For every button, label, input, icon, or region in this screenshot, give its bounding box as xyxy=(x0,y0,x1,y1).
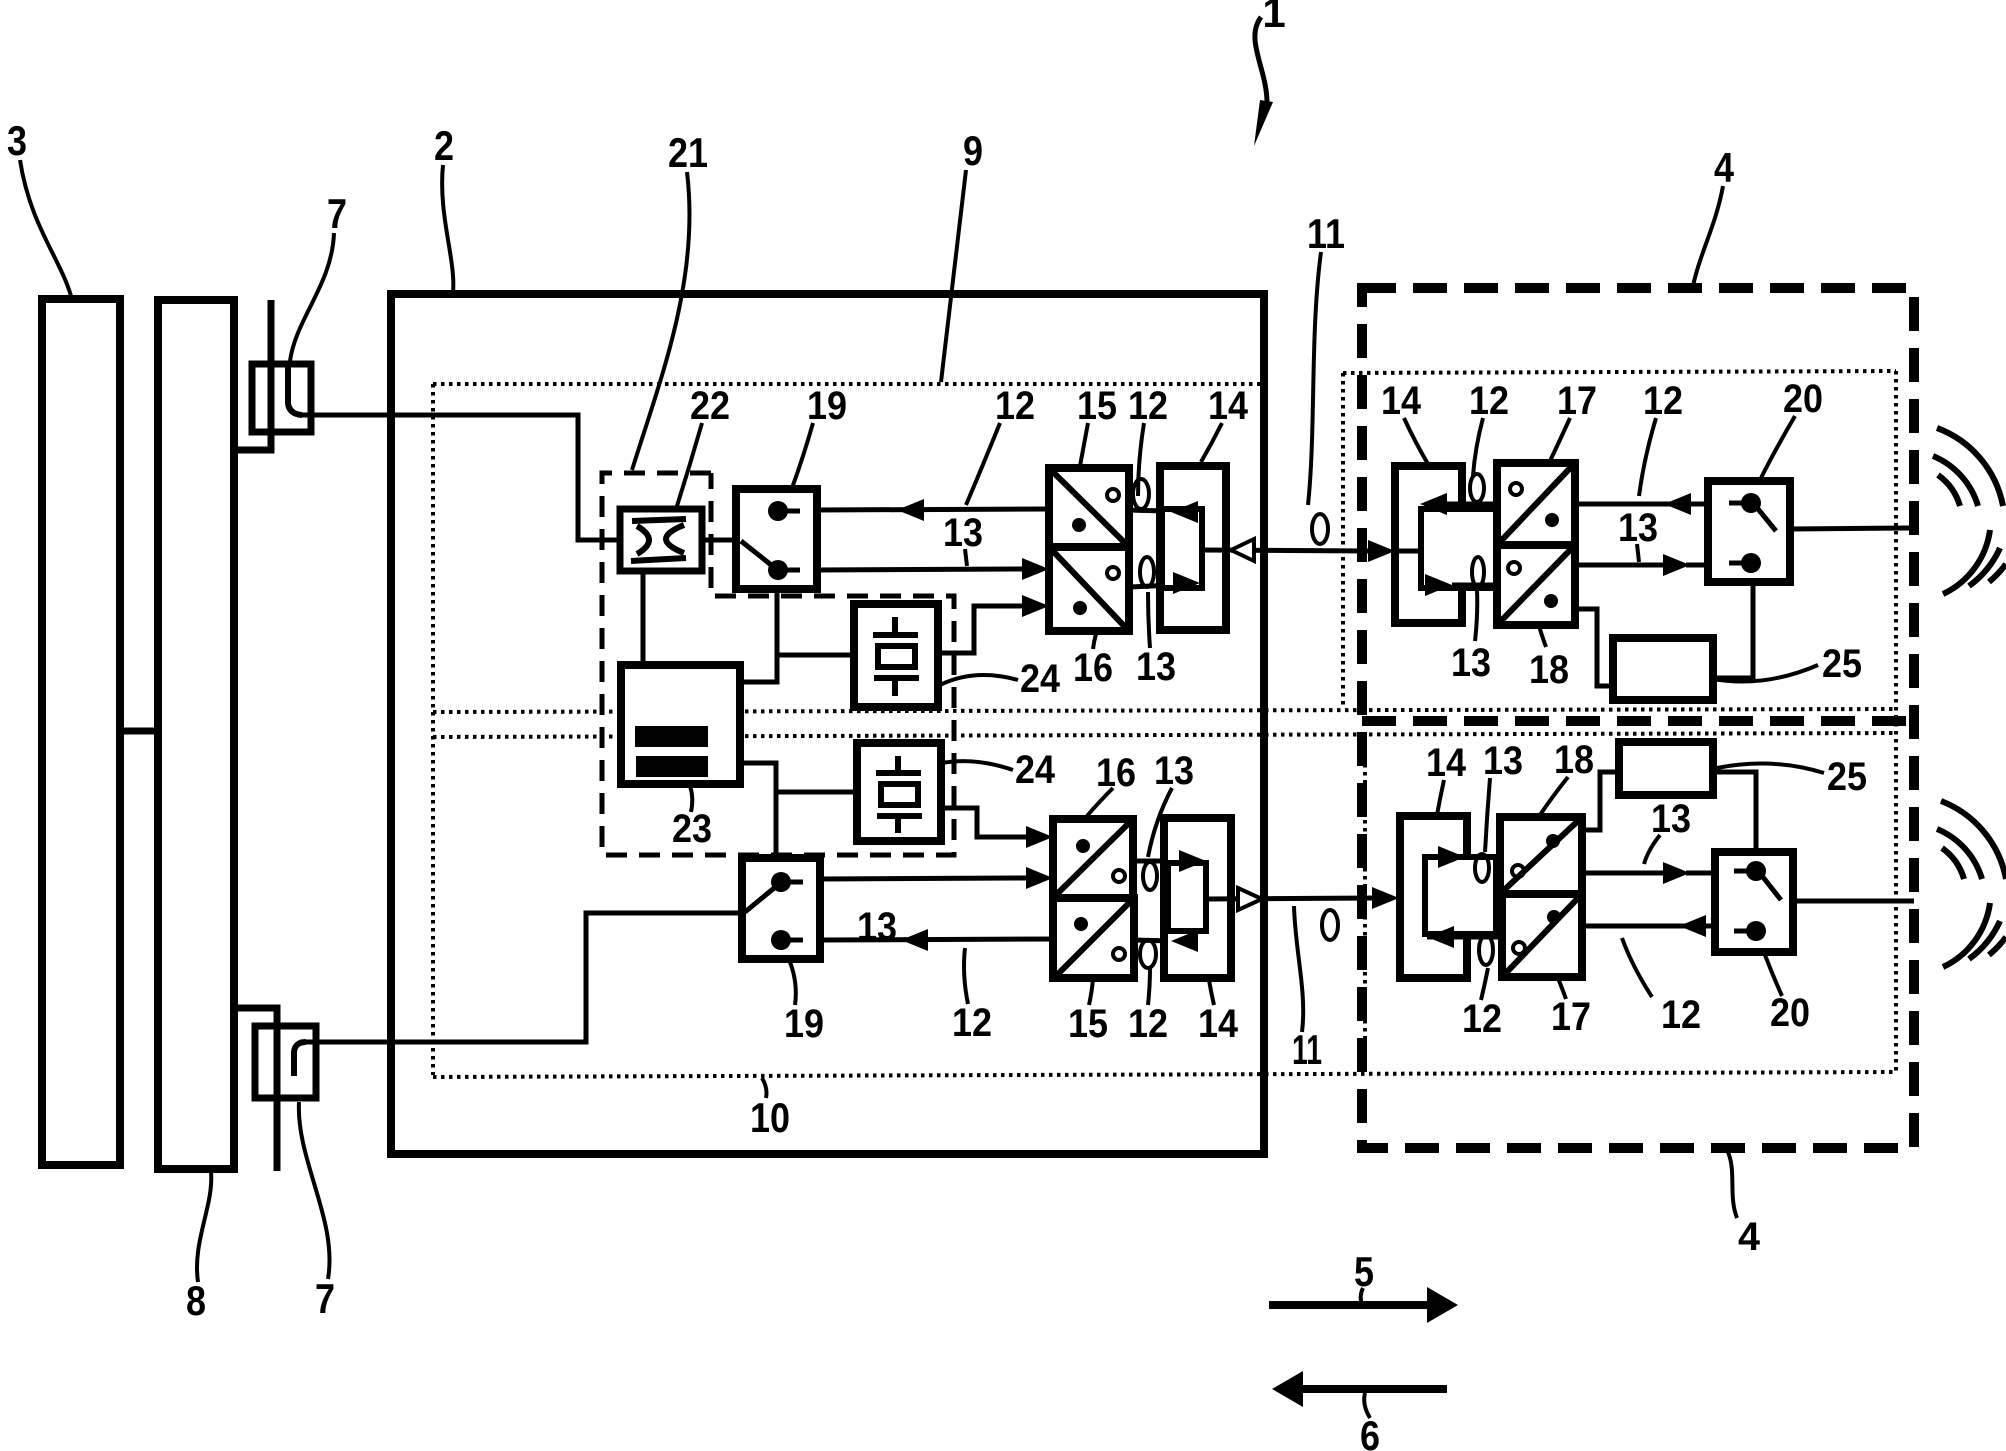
line 11 into coupler 14 right-top xyxy=(1395,549,1421,554)
leader for 11 top xyxy=(1308,252,1321,505)
twisted loop right-bottom (upper) xyxy=(1475,854,1489,882)
converter 16 : filled dot xyxy=(1073,601,1087,615)
svg-text:12: 12 xyxy=(1462,997,1502,1041)
wire control 23 to switch 19 bottom (control line) xyxy=(740,763,776,857)
leader for 4 top xyxy=(1693,186,1723,286)
leader for 23 xyxy=(690,786,692,812)
converter 18 : open dot xyxy=(1508,562,1520,574)
svg-text:10: 10 xyxy=(750,1094,790,1141)
receive line switch 19 top to converter 15 xyxy=(817,509,1049,510)
switch 19 bottom : upper contact dot xyxy=(771,872,791,892)
leader for 2 xyxy=(442,165,453,292)
twisted loop bottom section (upper) xyxy=(1143,862,1157,890)
receive line converter 15 bottom to switch 19 bottom xyxy=(821,939,1054,940)
line converter 16 bottom to coupler 14 (top) xyxy=(1133,859,1176,864)
oscillator 24 bottom : box xyxy=(857,743,941,841)
svg-text:12: 12 xyxy=(952,1001,992,1045)
wire from connector 7 bottom to switch 19 (bottom) xyxy=(300,913,742,1042)
switch 20 top : lower contact dot xyxy=(1741,553,1761,573)
converter 18 bottom : diagonal xyxy=(1502,819,1580,892)
svg-text:25: 25 xyxy=(1827,755,1867,799)
svg-text:16: 16 xyxy=(1073,646,1113,690)
leader for 12 xyxy=(966,423,1000,505)
leader for 12 (to loop bottom) xyxy=(1148,968,1150,1005)
line converter 15 to coupler 14 (top) xyxy=(1129,510,1197,512)
wire converter 22 to switch 19 top xyxy=(701,538,739,543)
coupler 14 right-bottom : inner box xyxy=(1425,857,1496,934)
converter 16 bottom : diagonal xyxy=(1055,821,1131,896)
converter 17 bottom : diagonal xyxy=(1504,896,1580,975)
svg-text:13: 13 xyxy=(1618,506,1658,550)
receive line switch 20 to converter 17 xyxy=(1575,502,1708,507)
dashed control unit box 21 (stepped outline) xyxy=(602,473,954,855)
svg-text:8: 8 xyxy=(186,1277,206,1324)
leader for 13 right-bottom (to loop) xyxy=(1485,778,1490,852)
coupler 14 left-top : box xyxy=(1160,466,1226,630)
open arrowhead left on line 11 top xyxy=(1231,539,1254,561)
leader for 4 bottom xyxy=(1727,1150,1737,1218)
leader for 18 xyxy=(1539,626,1546,647)
wire converter 18 to amplifier 25 top xyxy=(1575,609,1614,686)
control unit 23 : text bar 2 xyxy=(636,756,708,777)
svg-text:13: 13 xyxy=(1451,641,1491,685)
dotted box right-top : left edge xyxy=(1341,373,1345,709)
svg-text:14: 14 xyxy=(1208,384,1249,428)
svg-text:22: 22 xyxy=(690,384,730,428)
converter 18 bottom : open dot xyxy=(1512,865,1524,877)
arrowhead into converter 16 (transmit) xyxy=(1022,558,1049,580)
leader for 12 right-top 2 xyxy=(1639,418,1656,496)
switch 19 top : upper contact dot xyxy=(768,501,788,521)
dotted channel box 9/10 : left edge xyxy=(431,384,435,1075)
transmit line switch 19 top to converter 16 xyxy=(817,569,1023,570)
link line 11 top xyxy=(1202,550,1368,551)
line coupler 14 to converter 18 (transmit) xyxy=(1452,583,1497,588)
twisted loop right-top (upper) xyxy=(1470,474,1484,502)
leader for 14 bottom xyxy=(1209,980,1214,1005)
converter 22 : symbol right curve xyxy=(666,525,684,553)
switch 19 bottom : wiper arm xyxy=(745,884,779,912)
twisted loop on line 11 top xyxy=(1312,514,1328,544)
switch 20 bottom : upper contact dot xyxy=(1746,861,1766,881)
line converter 17 bottom to coupler 14 (receive) xyxy=(1427,935,1500,940)
coupler 14 right-top : inner box xyxy=(1421,509,1496,588)
coupler 14 left-bottom : transmit arrowhead xyxy=(1179,850,1206,872)
dotted box right-top : top edge xyxy=(1343,371,1896,373)
converter 15 : filled dot xyxy=(1072,518,1086,532)
leader for 24 top xyxy=(940,675,1018,685)
converter 22 : box xyxy=(620,509,702,571)
dotted channel box 9 : top edge xyxy=(433,382,1260,386)
switch 20 bottom : lower contact stub xyxy=(1734,929,1756,934)
svg-text:12: 12 xyxy=(1661,993,1701,1037)
connector 7 bottom : inner pin (hook) xyxy=(294,1042,306,1076)
converter 17 bottom : box xyxy=(1502,894,1582,977)
leader for 19 bottom xyxy=(790,962,796,1005)
leader for 13 mid-left (to loop) xyxy=(1148,592,1150,648)
twisted loop right-top (lower) xyxy=(1472,557,1484,587)
switch 20 top : lower contact stub xyxy=(1729,561,1751,566)
control unit 23 : box xyxy=(621,665,740,784)
charging device housing 2 (large solid rectangle) xyxy=(391,294,1264,1154)
svg-text:4: 4 xyxy=(1714,144,1735,191)
converter 18 : diagonal xyxy=(1499,547,1573,623)
converter 17 : box xyxy=(1497,463,1575,545)
leader for 16 top xyxy=(1093,634,1096,649)
svg-text:19: 19 xyxy=(807,384,847,428)
wire branch to oscillator 24 top xyxy=(777,653,854,658)
line 11 into coupler 14 right-bottom xyxy=(1399,898,1425,899)
charger contact block 8 (tall rectangle) xyxy=(158,300,234,1169)
leader for 8 xyxy=(197,1172,211,1282)
svg-text:20: 20 xyxy=(1783,377,1823,421)
line converter 15 bottom to coupler 14 (bottom) xyxy=(1134,940,1172,941)
converter 22 : symbol bottom bar xyxy=(631,558,686,561)
svg-text:9: 9 xyxy=(963,127,983,174)
leader for 7 bottom xyxy=(299,1102,330,1279)
coupler 14 right-top : receive arrowhead xyxy=(1420,493,1447,515)
link line 11 bottom xyxy=(1206,898,1376,899)
switch 20 bottom : upper contact stub xyxy=(1734,869,1756,874)
svg-text:7: 7 xyxy=(315,1275,335,1322)
converter 16 : open dot xyxy=(1107,567,1119,579)
wire from connector 7 top to converter 22 xyxy=(297,415,621,540)
oscillator 24 top : box xyxy=(854,604,938,707)
svg-text:18: 18 xyxy=(1529,648,1569,692)
coupler 14 left-top : receive arrowhead xyxy=(1171,501,1198,523)
transmit line converter 18 to switch 20 xyxy=(1575,563,1663,568)
dotted box right : right edge xyxy=(1894,371,1898,1072)
switch 20 top : upper contact stub xyxy=(1729,501,1751,506)
leader for 12 right-top (to loop) xyxy=(1473,418,1483,476)
leader for 18 bottom xyxy=(1540,777,1568,815)
arrowhead into converter 16 (from 24 top) xyxy=(1022,595,1049,617)
svg-text:1: 1 xyxy=(1262,0,1285,36)
receive line switch 20 bottom to converter 17 bottom xyxy=(1582,924,1715,929)
leader for 12 (to loop) xyxy=(1138,423,1144,496)
converter 18 bottom : filled dot xyxy=(1546,834,1560,848)
switch 19 bottom : box xyxy=(742,858,820,959)
switch 19 bottom : upper contact stub xyxy=(781,880,803,885)
leader for 14 right-top xyxy=(1404,418,1428,464)
svg-text:13: 13 xyxy=(1154,749,1194,793)
arrowhead toward converter 17 xyxy=(1664,493,1691,515)
svg-text:24: 24 xyxy=(1020,657,1061,701)
arrowhead toward switch 19 bottom (receive) xyxy=(901,929,928,951)
transmit line switch 19 bottom to converter 16 bottom xyxy=(821,878,1027,879)
wire oscillator 24 top to converter 16 xyxy=(938,606,1023,653)
leader tick for 5 xyxy=(1361,1288,1363,1305)
coupler 14 left-bottom : box xyxy=(1164,818,1231,978)
amplifier 25 bottom : box xyxy=(1619,742,1713,795)
converter 17 : open dot xyxy=(1510,483,1522,495)
svg-text:14: 14 xyxy=(1426,741,1467,785)
battery/cell block 3 (tall rectangle) xyxy=(42,299,120,1165)
antenna line top xyxy=(1790,528,1912,529)
svg-text:19: 19 xyxy=(784,1002,824,1046)
amplifier 25 top : box xyxy=(1613,638,1713,700)
leader for 24 bottom xyxy=(942,761,1013,770)
svg-text:17: 17 xyxy=(1551,995,1591,1039)
arrowhead into converter 16 bottom (transmit) xyxy=(1026,867,1053,889)
leader for 21 xyxy=(632,172,690,470)
svg-text:12: 12 xyxy=(1643,379,1683,423)
converter 18 : filled dot xyxy=(1544,594,1558,608)
switch 19 top : lower contact stub xyxy=(778,568,800,573)
dashed divider between hearing aids xyxy=(1362,716,1914,726)
svg-text:14: 14 xyxy=(1381,379,1422,423)
coupler 14 left-bottom : receive arrowhead xyxy=(1171,930,1198,952)
svg-text:13: 13 xyxy=(1651,797,1691,841)
leader for 9 xyxy=(941,170,966,382)
converter 22 : symbol left curve xyxy=(637,526,649,554)
direction arrow 6 xyxy=(1298,1385,1447,1393)
connector 7 top : box xyxy=(252,364,311,432)
leader for 10 xyxy=(762,1078,767,1098)
leader for 15 bottom xyxy=(1089,979,1093,1005)
switch 20 top : wiper arm xyxy=(1754,504,1776,531)
leader for 13 right-top low (to loop) xyxy=(1475,590,1477,641)
svg-text:13: 13 xyxy=(1483,739,1523,783)
leader for 19 top xyxy=(792,423,813,488)
switch 19 bottom : lower contact dot xyxy=(771,930,791,950)
leader for 16 bottom xyxy=(1087,788,1113,816)
oscillator 24 top : crystal symbol xyxy=(873,617,919,696)
wire oscillator 24 bottom to converter 16 (bottom section) xyxy=(941,808,1026,837)
svg-text:11: 11 xyxy=(1292,1026,1322,1073)
switch 19 top : wiper arm xyxy=(741,541,775,568)
converter 16 bottom : filled dot xyxy=(1076,839,1090,853)
svg-text:2: 2 xyxy=(434,122,454,169)
switch 20 bottom : wiper arm xyxy=(1759,872,1781,900)
coupler 14 left-top : inner box xyxy=(1162,509,1202,588)
converter 15 bottom : box xyxy=(1053,898,1134,978)
converter 17 : filled dot xyxy=(1545,513,1559,527)
switch 19 top : lower contact dot xyxy=(768,560,788,580)
dotted box right-bottom : left edge xyxy=(1363,740,1367,1072)
arrowhead into switch 20 bottom xyxy=(1663,862,1690,884)
dotted line A (bottom of box 9, continues to right unit) xyxy=(433,709,1896,712)
switch 20 top : upper contact dot xyxy=(1741,493,1761,513)
svg-text:14: 14 xyxy=(1198,1002,1239,1046)
radio waves top antenna (upper arcs) xyxy=(1938,475,1960,506)
wire converter 22 to control 23 xyxy=(641,571,646,665)
leader for 11 bottom xyxy=(1294,906,1303,1032)
wire control 23 to switch 19 top (control line) xyxy=(740,587,777,682)
leader for 20 xyxy=(1760,416,1795,480)
converter 16 : box xyxy=(1049,547,1129,631)
coupler 14 left-bottom : inner box xyxy=(1168,863,1206,931)
svg-text:13: 13 xyxy=(857,905,897,949)
connector 7 bottom : box xyxy=(255,1026,316,1098)
wire amplifier 25 bottom to switch 20 bottom xyxy=(1713,772,1756,852)
arrowhead toward switch 19 top (receive) xyxy=(897,499,924,521)
leader for 25 bottom xyxy=(1717,764,1824,773)
switch 19 top : box xyxy=(736,489,817,589)
svg-text:23: 23 xyxy=(672,807,712,851)
converter 15 bottom : open dot xyxy=(1113,948,1125,960)
svg-text:24: 24 xyxy=(1015,748,1056,792)
svg-text:17: 17 xyxy=(1557,379,1597,423)
converter 15 : open dot xyxy=(1107,489,1119,501)
leader for 14 right-bottom xyxy=(1437,780,1444,815)
wire amplifier 25 top to switch 20 top xyxy=(1713,582,1753,678)
twisted loop bottom section (lower) xyxy=(1140,940,1156,968)
svg-text:12: 12 xyxy=(1128,1002,1168,1046)
arrowhead into converter 16 bottom (from 24 bottom) xyxy=(1026,826,1053,848)
converter 15 bottom : filled dot xyxy=(1074,917,1088,931)
converter 15 : diagonal xyxy=(1051,470,1127,545)
filled arrowhead right on line 11 top xyxy=(1368,540,1395,562)
svg-text:15: 15 xyxy=(1077,384,1117,428)
leader tick for 6 xyxy=(1364,1393,1370,1418)
direction arrow 5 xyxy=(1269,1301,1432,1309)
svg-text:5: 5 xyxy=(1354,1248,1374,1295)
leader tick for 13 right-top mid xyxy=(1637,544,1639,562)
leader for 13 bottom-mid (to loop) xyxy=(1148,788,1172,857)
coupler 14 right-bottom : receive arrowhead xyxy=(1427,926,1454,948)
switch 19 bottom : lower contact stub xyxy=(781,938,803,943)
coupler 14 right-top : box xyxy=(1395,466,1462,623)
line coupler 14 to converter 18 bottom (transmit) xyxy=(1465,855,1500,860)
leader squiggle for 1 with arrowhead xyxy=(1255,17,1267,105)
svg-text:15: 15 xyxy=(1068,1002,1108,1046)
leader for 3 xyxy=(20,160,71,296)
svg-text:13: 13 xyxy=(1136,645,1176,689)
svg-text:20: 20 xyxy=(1770,991,1810,1035)
leader for 7 top xyxy=(290,233,334,361)
svg-text:12: 12 xyxy=(1469,379,1509,423)
converter 16 bottom : open dot xyxy=(1113,870,1125,882)
leader for 20 bottom xyxy=(1765,955,1782,996)
svg-text:18: 18 xyxy=(1554,738,1594,782)
twisted loop on line 13 (upper) xyxy=(1133,479,1149,509)
leader for 12 bottom-left xyxy=(964,948,968,1004)
svg-text:13: 13 xyxy=(943,511,983,555)
radio waves bottom antenna (lower arcs) xyxy=(1943,903,1990,967)
converter 22 : symbol top bar xyxy=(632,519,686,521)
coupler 14 left-top : transmit arrowhead xyxy=(1173,572,1200,594)
switch 20 bottom : lower contact dot xyxy=(1746,921,1766,941)
leader for 12 right-bottom 2 xyxy=(1622,938,1652,997)
radio waves top antenna (lower arcs) xyxy=(1943,530,1990,594)
twisted loop on line 13 (lower) xyxy=(1140,557,1154,587)
switch 20 bottom : box xyxy=(1715,852,1793,952)
switch 20 top : box xyxy=(1708,481,1790,582)
converter 18 bottom : box xyxy=(1500,817,1582,894)
leader for 25 top xyxy=(1713,665,1818,682)
converter 17 bottom : open dot xyxy=(1513,942,1525,954)
wire converter 18 bottom to amplifier 25 bottom xyxy=(1582,772,1619,830)
leader for 17 bottom xyxy=(1558,978,1566,999)
svg-text:7: 7 xyxy=(327,190,347,237)
filled arrowhead right on line 11 bottom xyxy=(1372,887,1399,909)
svg-text:25: 25 xyxy=(1822,642,1862,686)
leader tick for 13 xyxy=(965,549,967,566)
converter 16 : diagonal xyxy=(1051,549,1127,629)
arrowhead toward converter 17 bottom xyxy=(1679,915,1706,937)
svg-text:21: 21 xyxy=(668,129,708,176)
svg-text:4: 4 xyxy=(1738,1215,1761,1259)
converter 15 : box xyxy=(1049,468,1129,547)
svg-text:11: 11 xyxy=(1307,210,1345,257)
svg-text:12: 12 xyxy=(995,384,1035,428)
coupler 14 right-top : transmit arrowhead xyxy=(1425,574,1452,596)
arrowhead into switch 20 xyxy=(1663,554,1690,576)
connector 7 top : feed wire from block 8 xyxy=(234,300,271,450)
svg-text:16: 16 xyxy=(1096,751,1136,795)
leader for 17 xyxy=(1550,418,1570,461)
transmit line converter 18 bottom to switch 20 bottom xyxy=(1582,871,1663,876)
leader for 12 right-bottom 1 (to loop) xyxy=(1481,968,1488,1000)
control unit 23 : text bar 1 xyxy=(635,726,708,747)
leader for 13 right-bottom mid xyxy=(1644,835,1660,864)
leader for 14 xyxy=(1201,423,1222,462)
wire branch to oscillator 24 bottom xyxy=(776,790,857,795)
coupler 14 right-bottom : box xyxy=(1400,816,1467,978)
svg-text:12: 12 xyxy=(1128,384,1168,428)
converter 17 : diagonal xyxy=(1499,465,1573,543)
dotted line B (top of box 10, continues to right unit) xyxy=(433,733,1896,737)
dotted bottom edge of box 10 (continues to right unit) xyxy=(433,1072,1896,1077)
line coupler 14 to converter 17 (receive) xyxy=(1447,502,1497,507)
line converter 16 to coupler 14 (bottom) xyxy=(1129,585,1175,587)
converter 15 bottom : diagonal xyxy=(1056,900,1132,976)
converter 18 : box xyxy=(1497,545,1575,625)
switch 19 top : upper contact stub xyxy=(778,509,800,514)
twisted loop right-bottom (lower) xyxy=(1479,935,1493,965)
oscillator 24 bottom : crystal symbol xyxy=(876,756,922,833)
svg-text:3: 3 xyxy=(7,117,27,164)
hearing aid dashed housing 4 (outer) xyxy=(1362,288,1914,1148)
leader for 15 xyxy=(1080,423,1088,466)
antenna line bottom xyxy=(1793,899,1914,904)
open arrowhead on line 11 bottom xyxy=(1238,888,1262,910)
converter 16 bottom : box xyxy=(1053,819,1133,898)
leader for 22 xyxy=(677,423,702,506)
connector 7 bottom : feed wire from block 8 xyxy=(234,1008,277,1171)
coupler 14 right-bottom : transmit arrowhead xyxy=(1438,846,1465,868)
converter 17 bottom : filled dot xyxy=(1547,910,1561,924)
bridge wire between block 3 and block 8 xyxy=(120,728,158,735)
connector 7 top : inner pin (hook) xyxy=(288,364,302,415)
radio waves bottom antenna (upper arcs) xyxy=(1942,848,1964,879)
twisted loop on line 11 bottom xyxy=(1322,910,1338,940)
